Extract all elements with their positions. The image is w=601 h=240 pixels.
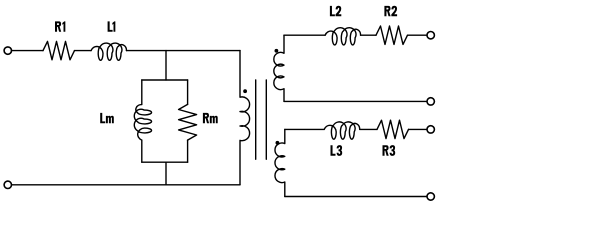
block left vertical upper bbox=[141, 80, 143, 104]
core line 2 bbox=[265, 80, 267, 159]
label L1 bbox=[108, 21, 116, 31]
inductor L2 bbox=[325, 28, 361, 45]
wire L3-R3 bbox=[360, 128, 377, 130]
resistor Rm (vertical) bbox=[179, 104, 197, 140]
wire block to bottom rail bbox=[165, 162, 167, 185]
bottom rail bbox=[12, 184, 240, 186]
secondary winding lower bbox=[275, 129, 285, 196]
inductor L3 bbox=[324, 122, 360, 139]
wire R2 to terminal bbox=[408, 34, 427, 36]
secondary winding upper bbox=[274, 35, 284, 101]
label R3 bbox=[383, 145, 396, 156]
terminal left-bottom bbox=[4, 181, 11, 188]
block left vertical lower bbox=[141, 140, 143, 162]
wire L1 to primary corner, junction at x=166 bbox=[127, 50, 241, 52]
resistor R2 bbox=[376, 26, 408, 44]
label Lm bbox=[100, 113, 114, 123]
secondary dot lower bbox=[276, 141, 280, 145]
label R2 bbox=[384, 6, 397, 17]
block right vertical upper bbox=[187, 80, 189, 104]
inductor L1 bbox=[91, 43, 127, 60]
wire upper secondary bottom bbox=[284, 100, 427, 102]
wire top-left bbox=[12, 50, 43, 52]
wire L2-R2 bbox=[361, 34, 376, 36]
label R1 bbox=[55, 21, 65, 31]
core line 1 bbox=[255, 80, 257, 159]
label Rm bbox=[203, 113, 218, 123]
terminal right-2 bbox=[427, 98, 434, 105]
primary winding U1 bbox=[240, 51, 250, 185]
terminal right-4 bbox=[427, 193, 434, 200]
label L2 bbox=[330, 6, 341, 17]
block right vertical lower bbox=[187, 140, 189, 162]
terminal right-1 bbox=[427, 32, 434, 39]
label L3 bbox=[331, 145, 343, 156]
terminal left-top bbox=[4, 47, 11, 54]
inductor Lm (vertical) bbox=[134, 105, 151, 141]
resistor R3 bbox=[377, 120, 409, 138]
primary dot bbox=[243, 89, 247, 93]
Lm/Rm block top bar bbox=[142, 79, 188, 81]
wire upper secondary top bbox=[284, 34, 325, 36]
block bottom bar bbox=[142, 161, 188, 163]
wire R3 to terminal bbox=[409, 128, 427, 130]
terminal right-3 bbox=[427, 126, 434, 133]
wire lower secondary bottom bbox=[285, 196, 427, 198]
resistor R1 bbox=[43, 41, 75, 59]
secondary dot upper bbox=[275, 49, 279, 53]
wire R1-L1 bbox=[75, 50, 92, 52]
wire junction down to Lm/Rm block bbox=[165, 51, 167, 80]
wire lower secondary top bbox=[285, 128, 324, 130]
